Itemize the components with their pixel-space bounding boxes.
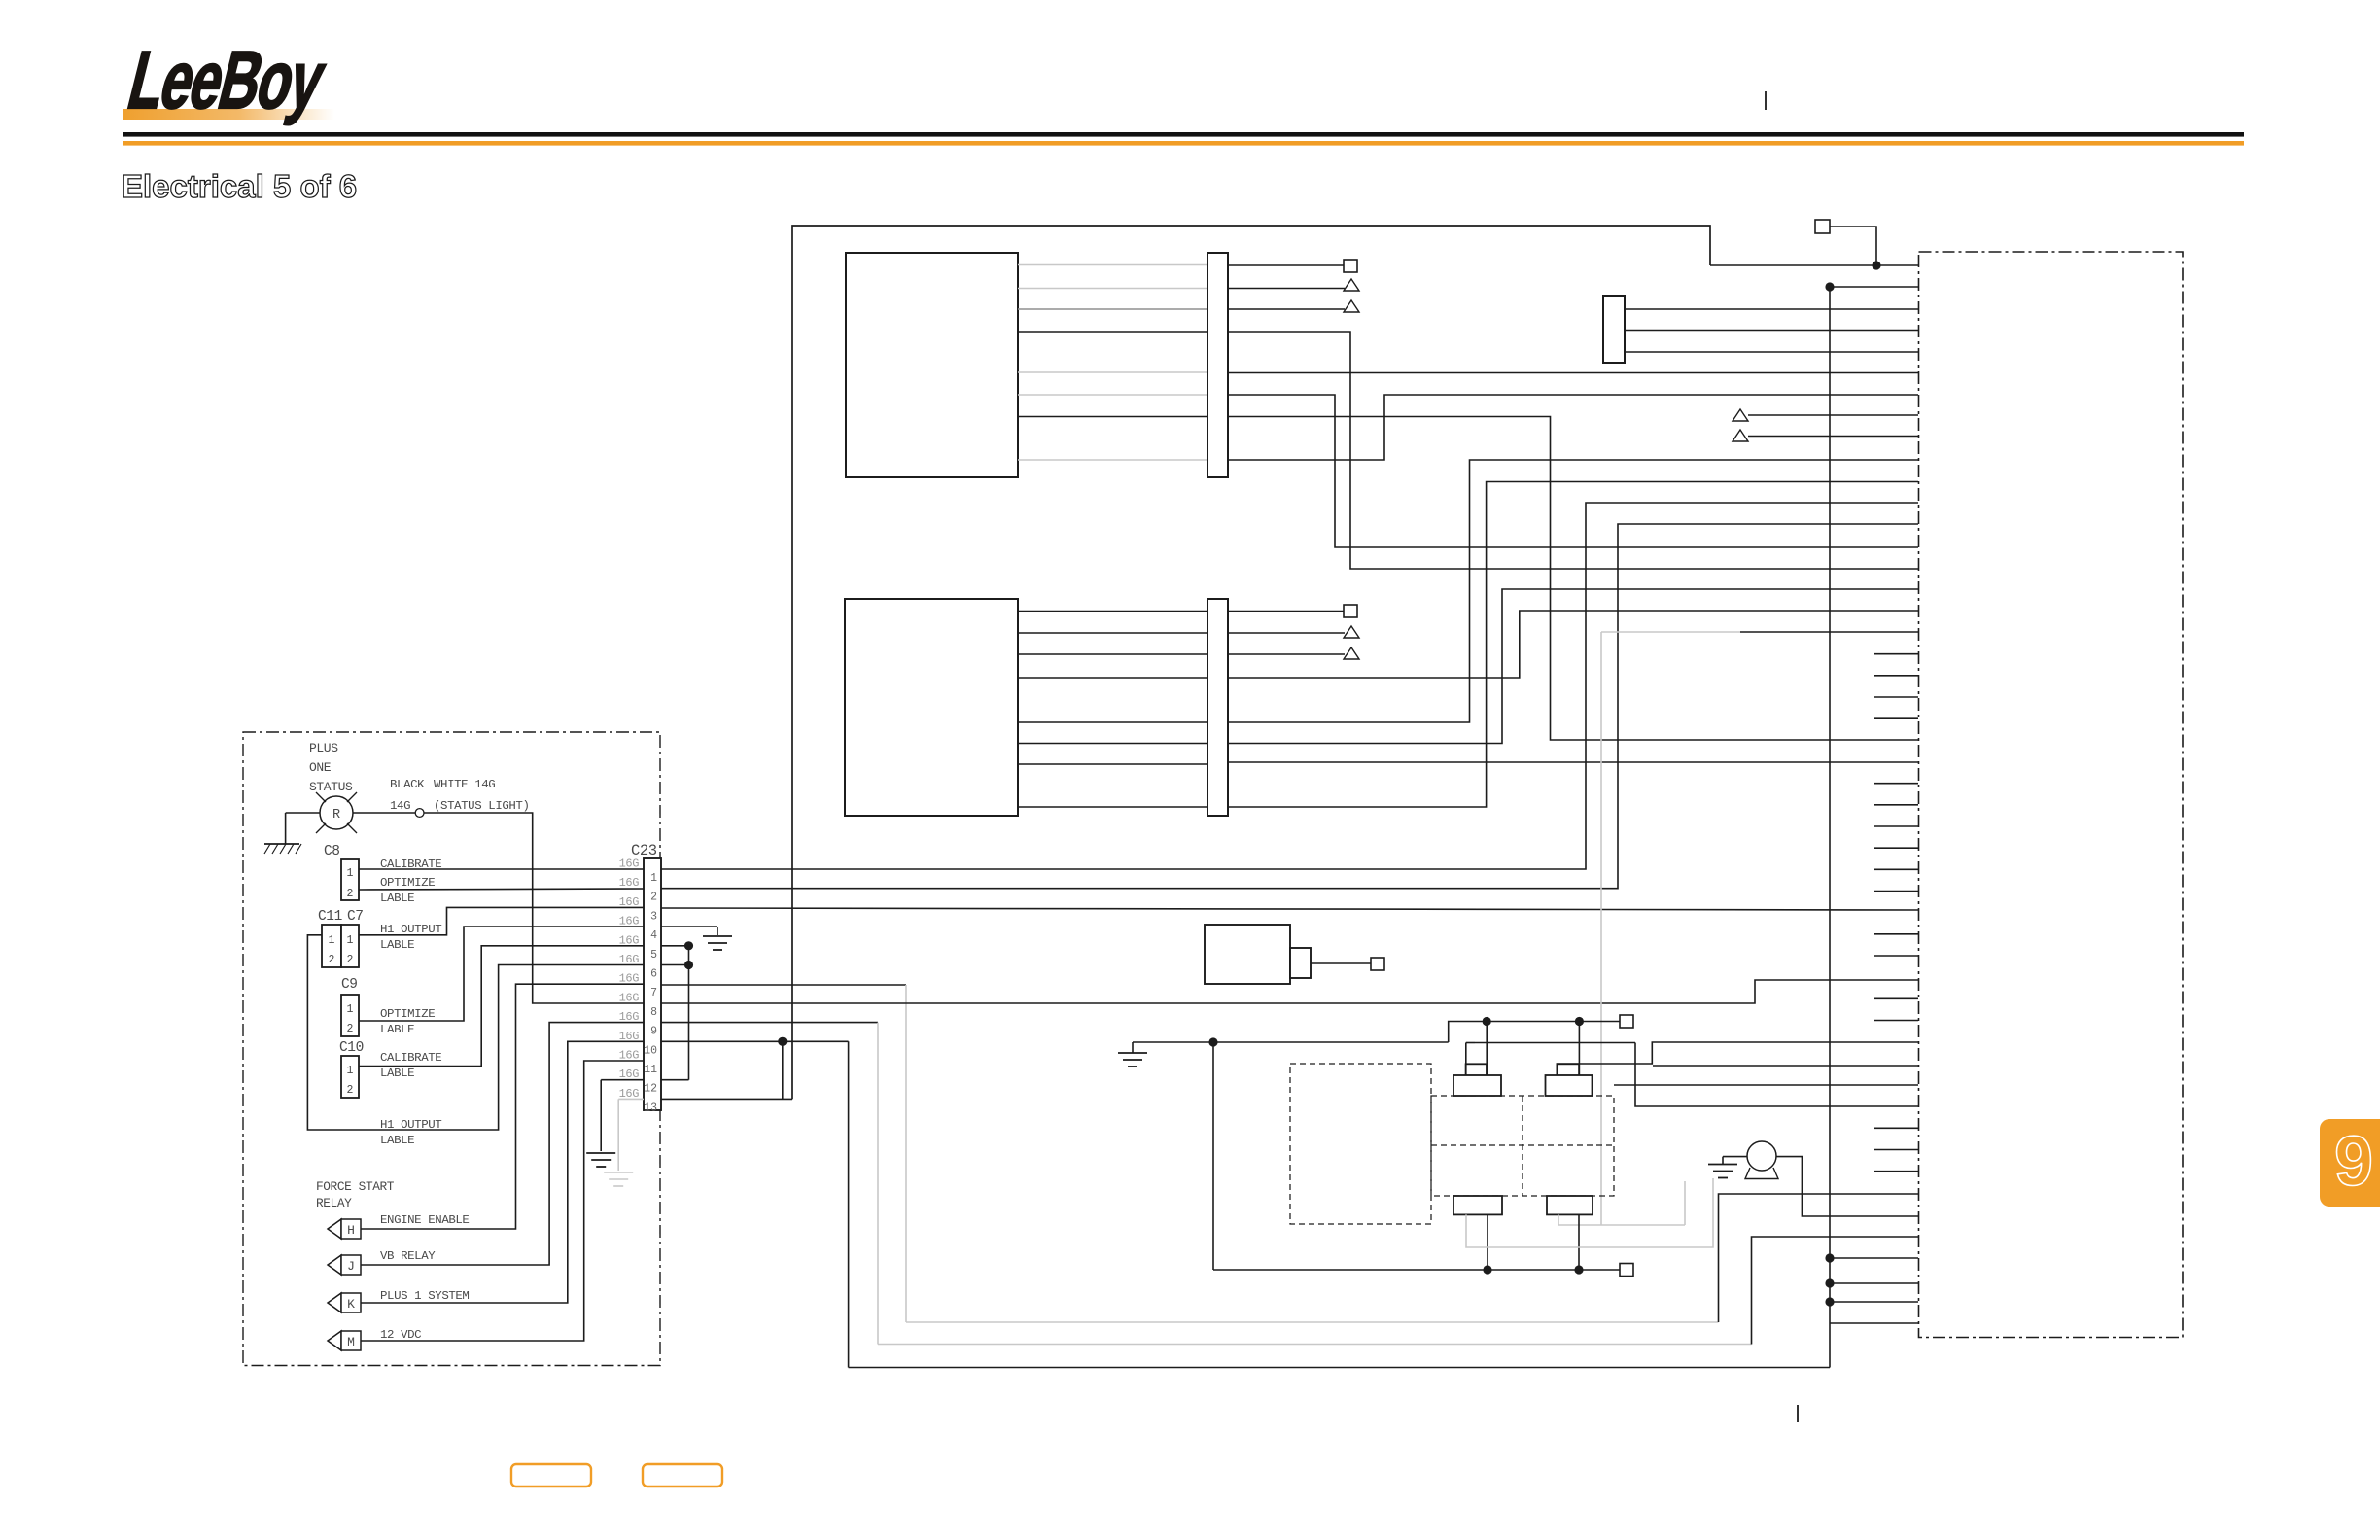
wire J1-8 net row4 xyxy=(1228,395,1918,460)
svg-text:1: 1 xyxy=(329,934,335,947)
junction dot net1072 riser xyxy=(1208,1037,1217,1046)
svg-text:ENGINE ENABLE: ENGINE ENABLE xyxy=(380,1213,469,1227)
connector C8 xyxy=(341,859,359,900)
svg-text:16G: 16G xyxy=(619,857,640,871)
wire J1-5 net row3 xyxy=(1228,372,1918,374)
wire dots into plug tops xyxy=(1486,1022,1487,1076)
footer orange box 1 xyxy=(511,1464,591,1487)
wire M to C23 pin11 xyxy=(361,1061,644,1341)
wire bottom rail to square P5 xyxy=(1213,1269,1620,1271)
svg-text:C7: C7 xyxy=(347,909,364,925)
bus wire vertical x1882 xyxy=(1829,287,1831,1368)
module M1 box xyxy=(846,253,1018,477)
ground G4 grey xyxy=(604,1172,633,1173)
wire plugA top horizontal join xyxy=(1466,1042,1475,1044)
wire J2-7 net row21 xyxy=(1228,761,1918,763)
wire C23-1 net row9 xyxy=(661,503,1918,869)
wire H to C23 pin7 xyxy=(361,984,644,1229)
connector J2 bar xyxy=(1207,599,1228,816)
chassis ground hatched xyxy=(264,843,299,845)
svg-text:16G: 16G xyxy=(619,953,640,966)
wire J2-1 to square P2 xyxy=(1228,611,1344,612)
connector square P1 xyxy=(1344,260,1357,272)
svg-text:ONE: ONE xyxy=(309,760,332,775)
wire J2-8 net row8 xyxy=(1228,482,1918,808)
svg-text:9: 9 xyxy=(650,1026,657,1038)
wire motor to ground G6 xyxy=(1723,1156,1747,1158)
wire T6 net row6 xyxy=(1748,436,1918,437)
connector C7 xyxy=(341,925,359,967)
svg-text:1: 1 xyxy=(347,934,354,947)
svg-text:16G: 16G xyxy=(619,895,640,909)
svg-text:LeeBoy: LeeBoy xyxy=(120,35,333,125)
wire C7-1 to C23 pin3 xyxy=(359,907,644,934)
triangle T2 xyxy=(1344,300,1359,312)
svg-text:C11: C11 xyxy=(318,909,342,925)
svg-text:OPTIMIZE: OPTIMIZE xyxy=(380,1007,435,1021)
svg-text:2: 2 xyxy=(347,1023,354,1035)
wire C23-7 grey drop net row41 xyxy=(661,984,906,986)
wire lamp white to C23 pin8 xyxy=(353,812,415,814)
header black rule xyxy=(122,132,2244,137)
left dashed enclosure box xyxy=(243,732,660,1366)
svg-text:H1 OUTPUT: H1 OUTPUT xyxy=(380,1118,441,1132)
cab harness dash-dot box xyxy=(1919,252,2184,1338)
svg-text:6: 6 xyxy=(650,968,657,981)
wire motor net row42 xyxy=(1776,1157,1918,1216)
connector C11 xyxy=(322,925,341,967)
svg-text:9: 9 xyxy=(2334,1123,2373,1201)
LeeBoy logo xyxy=(120,35,333,125)
svg-text:2: 2 xyxy=(347,1084,354,1097)
wire C23-2 net row10 xyxy=(661,524,1918,889)
svg-text:LABLE: LABLE xyxy=(380,1067,414,1080)
relay plug A top xyxy=(1466,1064,1487,1075)
svg-text:11: 11 xyxy=(644,1064,657,1076)
wire C23-3 net row28 xyxy=(661,908,1918,910)
connector square P2 xyxy=(1344,605,1357,617)
ground G2 xyxy=(703,935,732,937)
svg-text:1: 1 xyxy=(347,867,354,880)
wire C23-9 grey drop net row43 xyxy=(661,1022,878,1024)
junction dots plugs top xyxy=(1483,1017,1491,1026)
connector J1 bar xyxy=(1207,253,1228,477)
wire J1-3 to triangle T2 xyxy=(1228,308,1345,310)
svg-text:C9: C9 xyxy=(341,977,358,993)
wire lamp to chassis ground xyxy=(286,812,320,814)
wire C8-2 to C23 pin2 xyxy=(359,889,644,890)
svg-text:1: 1 xyxy=(650,872,657,885)
svg-text:2: 2 xyxy=(347,954,354,966)
triangle T3 xyxy=(1344,626,1359,638)
svg-text:16G: 16G xyxy=(619,991,640,1004)
wire C9-2 to C23 pin4 xyxy=(359,927,644,1021)
svg-text:STATUS: STATUS xyxy=(309,780,353,794)
wire J to C23 pin9 xyxy=(361,1023,644,1265)
svg-text:4: 4 xyxy=(650,929,657,942)
wire C23-5 C23-6 C23-12 tie xyxy=(661,945,689,947)
module M2 box xyxy=(845,599,1018,816)
wire C23-10 drop to bus bottom xyxy=(661,1040,849,1042)
triangle T5 xyxy=(1732,409,1748,421)
junction dot pin10 riser xyxy=(778,1037,787,1046)
svg-text:8: 8 xyxy=(650,1006,657,1019)
wire C23-12 to ground G3 xyxy=(601,1079,644,1081)
wire J1-1 to square P1 xyxy=(1228,264,1344,266)
footer orange box 2 xyxy=(643,1464,722,1487)
logo orange gradient bar xyxy=(122,109,334,120)
wire riser 1248 to bottom rail xyxy=(1212,1042,1214,1270)
svg-text:FORCE START: FORCE START xyxy=(316,1179,395,1194)
connector C10 xyxy=(341,1056,359,1098)
svg-text:VB RELAY: VB RELAY xyxy=(380,1249,436,1263)
cab harness pin stubs xyxy=(1874,654,1918,1172)
connector C23 bar xyxy=(644,858,661,1110)
svg-text:CALIBRATE: CALIBRATE xyxy=(380,1051,441,1065)
wire J3-3 net row2 xyxy=(1625,351,1918,353)
wire net row36 xyxy=(1614,1084,1918,1086)
svg-text:J: J xyxy=(347,1259,355,1274)
svg-text:2: 2 xyxy=(650,892,657,904)
wire T5 net row5 xyxy=(1748,414,1918,416)
wire J2-3 to triangle T4 xyxy=(1228,653,1345,655)
arrow terminal J xyxy=(328,1255,341,1275)
svg-text:1: 1 xyxy=(347,1065,354,1077)
svg-text:16G: 16G xyxy=(619,1049,640,1063)
junction dots on bus with stubs rows 44 45 46 xyxy=(1825,1253,1834,1262)
ground G5 xyxy=(1118,1052,1147,1054)
wire J2-5 net row7 xyxy=(1228,460,1918,722)
junction B dot xyxy=(1825,282,1834,291)
motor MT1 xyxy=(1747,1141,1776,1171)
wire C23-8 net row31 xyxy=(661,980,1918,1003)
wire J1-4 net row12 xyxy=(1228,332,1918,569)
module M1 to connector J1 wires xyxy=(1018,265,1207,461)
svg-text:C10: C10 xyxy=(339,1040,364,1056)
wire supply net 1072 to relay tops xyxy=(1133,1041,1449,1043)
schematic border left and top xyxy=(792,226,1710,1099)
svg-text:13: 13 xyxy=(644,1102,657,1114)
relay outer dashed box xyxy=(1290,1064,1431,1224)
arrow terminal M xyxy=(328,1331,341,1350)
svg-text:7: 7 xyxy=(650,987,657,999)
connector square P4 xyxy=(1620,1015,1633,1028)
triangle T6 xyxy=(1732,430,1748,441)
svg-text:16G: 16G xyxy=(619,933,640,947)
svg-text:PLUS: PLUS xyxy=(309,741,338,755)
wire V1 to square P3 xyxy=(1311,962,1371,964)
wire plug bottoms to rail xyxy=(1487,1214,1488,1270)
connector J3 bar xyxy=(1603,296,1625,363)
triangle T4 xyxy=(1344,647,1359,659)
wire J1-6 net row11 xyxy=(1228,395,1918,547)
connector square P3 xyxy=(1371,958,1384,970)
wire relay plugB grey jumper xyxy=(1557,1214,1559,1225)
svg-text:(STATUS LIGHT): (STATUS LIGHT) xyxy=(434,799,530,813)
junction dots pin5 pin6 xyxy=(684,941,693,950)
svg-text:WHITE 14G: WHITE 14G xyxy=(434,778,495,791)
svg-text:16G: 16G xyxy=(619,876,640,890)
svg-text:10: 10 xyxy=(644,1044,657,1057)
wire ground G5 stem xyxy=(1132,1042,1134,1053)
arrow terminal K xyxy=(328,1293,341,1312)
svg-text:16G: 16G xyxy=(619,972,640,986)
svg-text:12: 12 xyxy=(644,1083,657,1096)
svg-text:14G: 14G xyxy=(390,799,410,813)
svg-text:R: R xyxy=(332,808,340,822)
svg-text:3: 3 xyxy=(650,910,657,923)
wire C23-13 grey to ground G4 xyxy=(618,1098,644,1100)
connector square P5 xyxy=(1620,1264,1633,1277)
wire relay plugA top net row37 xyxy=(1465,1043,1467,1076)
wire S1 to junction A xyxy=(1830,227,1876,265)
wire bus corner row47 xyxy=(1830,1322,1918,1324)
wire relay plugA grey jumper xyxy=(1466,1178,1713,1247)
component V1 box xyxy=(1205,925,1290,984)
svg-text:RELAY: RELAY xyxy=(316,1196,352,1210)
svg-text:2: 2 xyxy=(347,888,354,900)
relay plug B top xyxy=(1557,1064,1579,1075)
svg-text:16G: 16G xyxy=(619,915,640,928)
header orange rule xyxy=(122,141,2244,146)
wire J3-1 net row0 xyxy=(1625,308,1918,310)
wire net row35 xyxy=(1653,1065,1918,1067)
wire net row15 grey xyxy=(1601,631,1740,633)
connector C9 xyxy=(341,995,359,1036)
ground G3 xyxy=(586,1152,615,1154)
svg-text:16G: 16G xyxy=(619,1010,640,1024)
top margin tick xyxy=(1765,91,1767,110)
svg-text:LABLE: LABLE xyxy=(380,1134,414,1147)
svg-text:16G: 16G xyxy=(619,1030,640,1043)
wire J2-6 net row13 xyxy=(1228,589,1918,744)
svg-text:K: K xyxy=(347,1297,355,1312)
svg-text:C8: C8 xyxy=(324,844,340,859)
junction dots bottom rail xyxy=(1483,1265,1491,1274)
wire K to C23 pin10 xyxy=(361,1041,644,1303)
svg-text:Electrical 5 of 6: Electrical 5 of 6 xyxy=(122,168,357,204)
relay contact dashed box xyxy=(1431,1096,1614,1196)
svg-text:PLUS 1 SYSTEM: PLUS 1 SYSTEM xyxy=(380,1289,469,1303)
svg-text:1: 1 xyxy=(347,1003,354,1016)
junction A dot xyxy=(1872,261,1880,269)
svg-text:2: 2 xyxy=(329,954,335,966)
svg-text:LABLE: LABLE xyxy=(380,892,414,905)
relay plug B bottom xyxy=(1547,1196,1592,1214)
wire J1-2 to triangle T1 xyxy=(1228,288,1345,290)
svg-text:H: H xyxy=(347,1223,355,1238)
wire J2-2 to triangle T3 xyxy=(1228,632,1345,634)
component V1 plug xyxy=(1290,948,1311,978)
relay plug A bottom xyxy=(1453,1196,1502,1214)
wire C23-13 riser to pin10 dot xyxy=(661,1098,792,1100)
module M2 to connector J2 wires xyxy=(1018,612,1207,808)
page number tab 9 xyxy=(2320,1119,2380,1207)
wire C23-4 to ground xyxy=(661,926,717,927)
ground G6 xyxy=(1708,1164,1737,1166)
wire J1-7 net row20 xyxy=(1228,417,1918,741)
wire junction B to box row295 xyxy=(1830,286,1918,288)
svg-text:5: 5 xyxy=(650,949,657,962)
bottom margin tick xyxy=(1797,1405,1799,1422)
svg-text:BLACK: BLACK xyxy=(390,778,425,791)
svg-text:12 VDC: 12 VDC xyxy=(380,1328,421,1342)
C23 pin numbers and 16G labels xyxy=(619,857,658,1115)
svg-text:H1 OUTPUT: H1 OUTPUT xyxy=(380,923,441,936)
triangle T1 xyxy=(1344,279,1359,291)
wire bus bottom return xyxy=(849,1367,1830,1369)
status lamp R xyxy=(320,796,353,829)
wire relay plugB top net row34 xyxy=(1557,1042,1918,1075)
svg-text:OPTIMIZE: OPTIMIZE xyxy=(380,876,435,890)
svg-text:M: M xyxy=(347,1335,355,1349)
arrow terminal H xyxy=(328,1219,341,1239)
wire C8-1 to C23 pin1 xyxy=(359,868,644,870)
relay contact dividers dashed xyxy=(1522,1096,1523,1196)
wire C10-1 to C23 pin5 xyxy=(359,946,644,1067)
wire C11-1 loop to C23 pin6 xyxy=(307,935,644,1130)
wire J3-2 net row1 xyxy=(1625,330,1918,332)
wire border to junction A xyxy=(1710,264,1918,266)
svg-text:LABLE: LABLE xyxy=(380,1023,414,1036)
svg-text:LABLE: LABLE xyxy=(380,938,414,952)
connector square S1 top right xyxy=(1815,220,1830,233)
wire J2-4 net row14 xyxy=(1228,611,1918,678)
